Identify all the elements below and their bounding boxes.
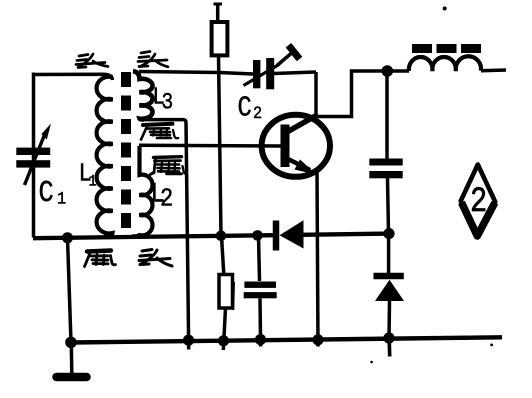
node mid rail x257 bbox=[252, 230, 263, 241]
node mid rail x67 bbox=[62, 232, 73, 243]
RF choke coil bbox=[409, 56, 481, 71]
winding mark head (below L2) bbox=[139, 250, 172, 267]
wire L3-bottom to ground line bbox=[144, 120, 189, 350]
node bottom x71 bbox=[65, 337, 77, 349]
speck top right bbox=[443, 7, 447, 11]
node bottom x223 bbox=[218, 335, 229, 346]
wire top-left rail bbox=[33, 74, 113, 80]
wire mid rail right of diode bbox=[302, 234, 389, 235]
svg-text:2: 2 bbox=[470, 181, 487, 221]
ground bbox=[70, 343, 74, 374]
svg-text:1: 1 bbox=[89, 174, 97, 191]
node bottom x389 bbox=[383, 332, 394, 343]
node mid rail x389 bbox=[383, 228, 394, 239]
winding mark head (above L1) bbox=[76, 54, 108, 68]
transistor Q1 emitter stroke bbox=[287, 159, 310, 171]
winding mark tail (right of L3 bottom) bbox=[141, 124, 178, 140]
inductor L2 bbox=[132, 146, 153, 236]
wire base lead bbox=[139, 143, 282, 147]
capacitor C3 (lower) stubs bbox=[259, 236, 260, 282]
annotation hammer mark bbox=[277, 51, 295, 66]
wire antenna top bbox=[216, 3, 220, 23]
svg-text:2: 2 bbox=[253, 104, 262, 124]
speck right of rail bbox=[490, 344, 493, 347]
capacitor C4 (right) plates bbox=[369, 159, 402, 179]
inductor L3 bbox=[133, 71, 153, 119]
svg-text:C: C bbox=[39, 175, 54, 211]
resistor R1 (top) bbox=[212, 22, 228, 55]
svg-text:2: 2 bbox=[160, 185, 173, 214]
C1 variable arrow bbox=[25, 134, 46, 186]
svg-text:3: 3 bbox=[162, 90, 174, 116]
winding mark head (above L3) bbox=[138, 52, 168, 67]
node bottom x188 bbox=[183, 335, 194, 346]
capacitor C3 plates bbox=[244, 282, 277, 299]
transistor Q1 circle bbox=[262, 115, 330, 177]
wire bottom rail bbox=[71, 337, 502, 342]
wire emitter down bbox=[317, 173, 318, 347]
wire x70 vertical bbox=[68, 238, 72, 343]
wire top rail (L3 to C2) bbox=[139, 72, 254, 75]
wire C4 to mid rail bbox=[388, 178, 389, 234]
transformer core bbox=[121, 72, 131, 238]
C2 slash arrow bbox=[244, 65, 280, 86]
wire zener to bottom rail bbox=[387, 301, 391, 338]
wire choke right bbox=[481, 68, 506, 72]
wire x387 vertical (top to cap) bbox=[385, 71, 389, 159]
speck bottom bbox=[370, 361, 373, 364]
wire collector drop bbox=[314, 72, 318, 117]
transistor Q1 collector stroke bbox=[287, 115, 318, 133]
wire mid rail left (y236) bbox=[33, 235, 274, 238]
winding mark tail (below L1) bbox=[85, 251, 116, 267]
svg-text:C: C bbox=[238, 91, 252, 124]
wire collector step bbox=[314, 71, 387, 117]
transistor Q1 base bar bbox=[281, 125, 290, 168]
inductor L1 bbox=[97, 77, 113, 237]
choke core (dashed bar) bbox=[412, 44, 481, 53]
node collector junction bbox=[382, 65, 394, 77]
wire stub below bottom rail bbox=[387, 338, 391, 357]
wire left vertical (C1 branch) bbox=[32, 73, 36, 238]
svg-text:1: 1 bbox=[57, 189, 66, 209]
node mid rail x221 bbox=[216, 231, 227, 242]
winding mark tail (right of L2 top) bbox=[151, 157, 187, 175]
capacitor C2 plates bbox=[253, 58, 274, 89]
resistor R2 (lower) bbox=[222, 236, 224, 275]
node bottom x260 bbox=[255, 334, 266, 345]
wire mid rail to zener bbox=[387, 234, 391, 273]
node bottom x318 bbox=[312, 334, 323, 345]
diamond marker 2 bbox=[461, 165, 496, 237]
diode D2 (zener, pointing up) bbox=[374, 273, 404, 280]
wire junction to choke bbox=[387, 69, 409, 73]
capacitor C1 plates bbox=[16, 148, 50, 168]
wire C2 to collector node bbox=[274, 72, 316, 74]
wire R1 down bbox=[219, 56, 222, 237]
diode D1 (horizontal) bbox=[273, 221, 280, 251]
